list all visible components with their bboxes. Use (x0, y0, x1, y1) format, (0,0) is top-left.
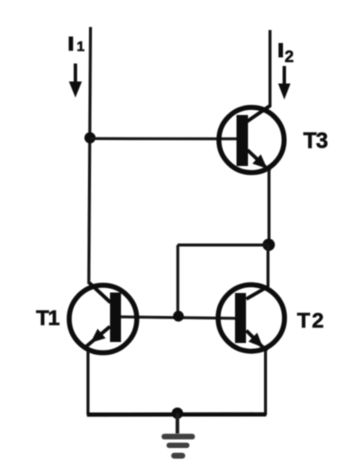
svg-text:1: 1 (77, 38, 85, 54)
wire T3 base horizontal (90, 137, 237, 140)
wire base horizontal (T1 base to T2 base) (115, 317, 236, 319)
wire bottom horizontal (emitters to ground) (87, 412, 266, 416)
current I1 arrow (69, 64, 82, 98)
current I2 arrow (278, 66, 290, 100)
node B (junction of T3 emitter, T2 collector and feedback wire) (263, 239, 275, 251)
wire left vertical (I1 input to T1 collector) (89, 27, 91, 284)
node C (junction of base wire and feedback wire) (173, 311, 184, 322)
transistor T3 (219, 106, 284, 173)
node A (junction of I1 wire and T3 base wire) (84, 132, 95, 143)
wire T2 emitter vertical down (264, 351, 267, 415)
wire feedback horizontal (node B to above bases) (178, 244, 270, 247)
svg-text:T3: T3 (303, 128, 328, 153)
node D (ground junction) (172, 408, 183, 419)
svg-text:T2: T2 (297, 308, 326, 332)
svg-text:T1: T1 (36, 306, 60, 330)
transistor T1 (69, 283, 137, 353)
svg-text:2: 2 (285, 48, 294, 66)
wire right top vertical (I2 input to T3 collector) (269, 30, 272, 107)
ground (162, 413, 196, 459)
wire feedback vertical down to base node (176, 245, 179, 317)
current I1 label (69, 37, 85, 55)
transistor T2 (218, 285, 284, 351)
current I2 label (279, 43, 294, 66)
wire T3 emitter vertical down to node B (268, 170, 271, 246)
wire T2 collector vertical (node B down to T2) (267, 245, 270, 287)
wire T1 emitter vertical down (87, 351, 90, 415)
